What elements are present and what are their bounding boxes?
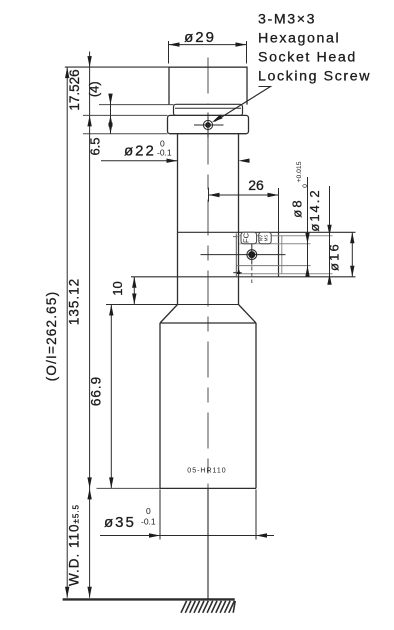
svg-text:(4): (4)	[86, 81, 101, 97]
leader note 3-M3x3	[212, 12, 371, 123]
svg-text:05-HR110: 05-HR110	[187, 468, 226, 475]
svg-text:ø35: ø35	[104, 514, 136, 531]
top plate	[174, 104, 243, 115]
cap block with locking screws	[168, 115, 249, 133]
ground hatch	[181, 601, 235, 613]
top face line with left extension	[65, 66, 247, 68]
dim O/I=262.65	[44, 67, 70, 598]
fiber port center dot	[201, 244, 286, 284]
screw dot on cap	[194, 113, 224, 138]
svg-text:Socket Head: Socket Head	[258, 50, 357, 66]
barrel model text 05-HR110	[187, 468, 226, 475]
svg-text:ø22: ø22	[124, 143, 156, 160]
svg-text:-0.1: -0.1	[157, 148, 172, 158]
dim o8	[290, 161, 310, 276]
connector block right face	[279, 232, 282, 276]
svg-text:-0.1: -0.1	[141, 517, 156, 527]
step / connector bottom line	[131, 276, 356, 278]
svg-text:Hexagonal: Hexagonal	[258, 31, 340, 47]
svg-text:ø16: ø16	[327, 242, 342, 271]
body top cylinder o29	[169, 67, 247, 105]
svg-text:Locking Screw: Locking Screw	[258, 69, 371, 85]
svg-text:MS: MS	[263, 235, 268, 242]
svg-text:+0.015: +0.015	[296, 161, 303, 182]
cone to barrel	[160, 305, 256, 324]
dim (4) and 6.5 shared line	[86, 81, 112, 155]
connector inner lines	[236, 236, 332, 274]
optical axis below lens to target	[207, 488, 209, 599]
dim o29	[169, 29, 247, 64]
dim 26	[209, 177, 279, 232]
text 17.526	[67, 69, 82, 110]
svg-text:10: 10	[110, 281, 125, 295]
o35 barrel	[160, 323, 256, 488]
section line at connector top	[178, 231, 356, 233]
dim o22	[101, 139, 250, 163]
svg-text:3-M3×3: 3-M3×3	[258, 12, 316, 28]
dim o16	[327, 232, 355, 276]
text W.D. 110+-5.5	[67, 504, 82, 586]
svg-text:ø29: ø29	[184, 29, 216, 46]
svg-text:ø14.2: ø14.2	[307, 188, 322, 231]
svg-text:6.5: 6.5	[88, 137, 103, 155]
svg-text:0: 0	[146, 506, 151, 516]
svg-text:17.526: 17.526	[67, 69, 82, 110]
connector label plate FC	[241, 232, 257, 243]
shoulder line above cone	[106, 304, 239, 306]
flange extension line	[83, 114, 168, 116]
o22 cylinder sides	[178, 134, 239, 305]
svg-text:FC: FC	[242, 232, 251, 243]
dim 66.9	[89, 305, 114, 489]
connector label plate 2	[259, 232, 272, 243]
plate top extension line	[99, 104, 174, 106]
dim o35	[100, 489, 274, 539]
svg-text:0: 0	[302, 184, 309, 188]
extension line at barrel bottom left	[97, 487, 161, 489]
dim o14.2	[307, 186, 332, 285]
connector left inner face	[233, 234, 242, 277]
cap bottom extension line	[83, 133, 168, 135]
svg-text:ø8: ø8	[290, 198, 305, 218]
svg-text:(O/I=262.65): (O/I=262.65)	[44, 291, 59, 382]
dim stack line 17.526 / 135.12 / W.D.	[87, 52, 91, 598]
svg-text:26: 26	[248, 177, 264, 193]
centerline (optical axis, dash-dot)	[207, 58, 209, 489]
svg-text:66.9: 66.9	[89, 376, 104, 406]
dim W.D. arrows at ground already in stack; ground line	[63, 598, 235, 600]
dim 10	[110, 277, 137, 305]
text 135.12	[67, 278, 82, 325]
svg-text:135.12: 135.12	[67, 278, 82, 325]
